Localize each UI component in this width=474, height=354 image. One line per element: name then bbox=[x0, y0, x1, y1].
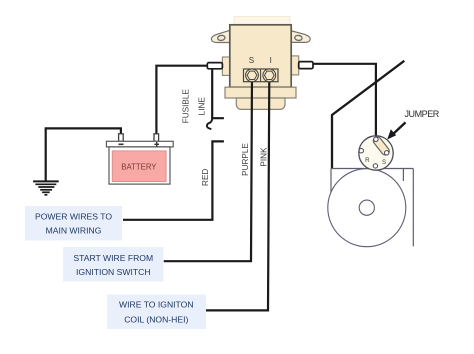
svg-text:FUSIBLE: FUSIBLE bbox=[181, 89, 190, 124]
solenoid left terminal block bbox=[222, 57, 230, 75]
svg-text:S: S bbox=[249, 56, 254, 65]
solenoid bottom tab bbox=[236, 98, 285, 109]
svg-text:I: I bbox=[270, 56, 272, 65]
svg-text:BATTERY: BATTERY bbox=[121, 163, 157, 172]
right white connector bbox=[299, 62, 313, 69]
flywheel center hole bbox=[359, 200, 374, 215]
wire battery negative to ground bbox=[46, 128, 121, 181]
wire S terminal to start-wire box (purple) bbox=[164, 75, 252, 261]
jumper arrow bbox=[387, 122, 405, 139]
cap terminal top bbox=[374, 137, 378, 141]
fusible link curl bbox=[207, 118, 212, 129]
jumper bbox=[372, 135, 391, 156]
solenoid body bbox=[230, 25, 291, 87]
svg-text:COIL (NON-HEI): COIL (NON-HEI) bbox=[124, 314, 188, 324]
svg-text:S: S bbox=[382, 159, 386, 166]
solenoid top tab bbox=[234, 17, 290, 26]
svg-text:LINE: LINE bbox=[197, 97, 206, 116]
solenoid base strip bbox=[225, 87, 296, 98]
solenoid left ear bbox=[211, 30, 230, 42]
svg-text:PURPLE: PURPLE bbox=[241, 143, 250, 176]
svg-text:START WIRE FROM: START WIRE FROM bbox=[73, 253, 153, 263]
wire battery positive to solenoid left connector bbox=[156, 66, 207, 135]
fusible link wire from left connector bbox=[212, 69, 224, 118]
svg-text:RED: RED bbox=[201, 169, 210, 186]
ground bbox=[33, 181, 59, 194]
svg-text:MAIN WIRING: MAIN WIRING bbox=[46, 226, 102, 236]
svg-text:IGNITION SWITCH: IGNITION SWITCH bbox=[76, 267, 150, 277]
distributor cap bbox=[359, 136, 393, 170]
cap terminal right bbox=[385, 151, 389, 155]
terminal strip with S and I nuts bbox=[244, 69, 279, 82]
start wire callout box bbox=[63, 247, 164, 282]
wire solenoid right connector to distributor cap bbox=[313, 64, 376, 138]
solenoid right terminal block bbox=[291, 56, 299, 75]
svg-text:PINK: PINK bbox=[259, 147, 268, 167]
red wire from fusible link to power box bbox=[123, 141, 224, 219]
coil wire callout box bbox=[107, 295, 206, 330]
left white connector bbox=[207, 63, 222, 69]
power wires callout box bbox=[25, 206, 122, 241]
svg-text:JUMPER: JUMPER bbox=[405, 109, 440, 119]
wire I terminal to coil box (pink) bbox=[206, 75, 269, 310]
cap terminal left bbox=[359, 149, 363, 153]
battery bbox=[106, 134, 173, 184]
cap terminal bottom bbox=[373, 164, 377, 168]
diagonal wire to distributor body bbox=[332, 61, 404, 169]
distributor body outline bbox=[331, 169, 413, 247]
svg-text:WIRE TO IGNITON: WIRE TO IGNITON bbox=[119, 300, 194, 310]
flywheel circle bbox=[328, 169, 406, 247]
svg-text:POWER WIRES TO: POWER WIRES TO bbox=[35, 212, 112, 222]
svg-text:R: R bbox=[365, 157, 370, 164]
solenoid right ear bbox=[290, 31, 310, 43]
